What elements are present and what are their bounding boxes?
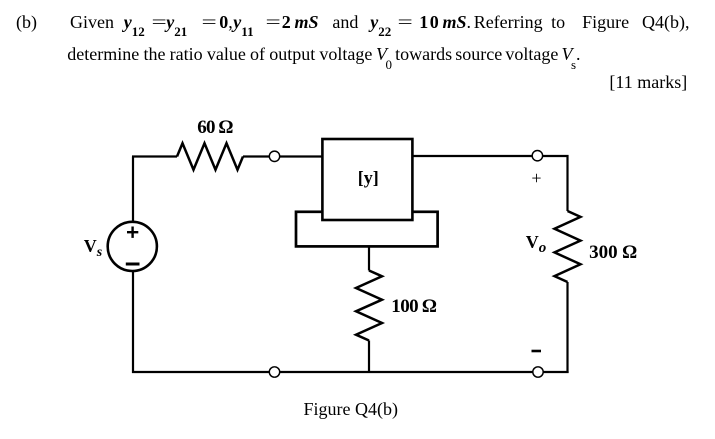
wire node to top right corner and down: [543, 156, 568, 211]
two-port network box [y]: [322, 139, 412, 220]
svg-text:[y]: [y]: [358, 168, 379, 188]
node port2 bottom terminal: [533, 367, 543, 377]
wire wide box to 100 ohm: [368, 246, 370, 271]
bottom wire left segment: [132, 371, 269, 373]
question text line 2 part A: [67, 45, 372, 63]
label plus output: [531, 169, 541, 187]
label 300 ohm: [589, 243, 637, 262]
bottom wire right of port1 node: [280, 371, 533, 373]
question text line 1: tail: [474, 13, 690, 31]
marks label: [609, 73, 687, 91]
wire 100 ohm to bottom: [368, 341, 370, 374]
label minus output: [532, 350, 542, 353]
label 100 ohm: [391, 297, 436, 316]
label Vs: [84, 237, 102, 256]
question text line 1: and: [332, 13, 358, 31]
wire bottom right corner: [543, 371, 568, 373]
wire left vertical lower: [132, 270, 134, 373]
voltage source minus sign: [126, 263, 140, 266]
wire top left horizontal: [132, 155, 177, 157]
node port1 top terminal: [269, 151, 279, 161]
label Vo: [526, 233, 547, 252]
question text line 1: math y22 = 10 mS.: [370, 13, 391, 31]
caption Figure Q4(b): [304, 400, 398, 418]
wire y-box to right node: [412, 155, 532, 157]
wire 300 ohm to bottom: [566, 282, 568, 373]
resistor 300 ohm zigzag: [555, 211, 581, 282]
question text line 2 part B: [376, 45, 581, 63]
node port2 top terminal: [532, 151, 542, 161]
label 60 ohm: [197, 118, 232, 137]
wire node to y-box: [280, 155, 322, 157]
voltage source Vs circle: [108, 222, 157, 271]
resistor 100 ohm zigzag: [356, 271, 382, 341]
lower wide box: [296, 212, 438, 247]
question label (b): [16, 13, 37, 31]
node port1 bottom terminal: [269, 367, 279, 377]
question text line 1: Given: [70, 13, 114, 31]
question text line 1: math y12 = y21 = 0, y11 = 2 mS: [124, 13, 145, 31]
voltage source plus sign: [127, 227, 138, 238]
resistor 60 ohm zigzag: [177, 143, 243, 169]
wire left vertical upper: [132, 157, 134, 223]
wire resistor to node: [243, 155, 270, 157]
